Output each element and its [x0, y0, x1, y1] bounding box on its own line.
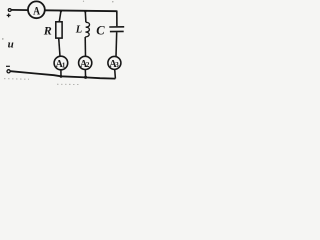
wire: inductor L to ammeter A2 — [84, 37, 86, 57]
wire: A1 to bottom rail — [60, 70, 62, 77]
wire: A3 down to bottom rail corner — [114, 69, 117, 78]
wire: + terminal to ammeter A — [11, 9, 28, 11]
plus sign — [7, 14, 11, 18]
resistor R — [56, 22, 62, 38]
wire: rail to inductor L — [84, 12, 87, 23]
minus sign — [6, 65, 10, 67]
ammeter A3 — [108, 56, 121, 69]
capacitor C bottom plate — [110, 30, 124, 32]
svg-text:L: L — [75, 24, 82, 35]
node: R branch junction — [60, 10, 62, 12]
ammeter A (U1) — [28, 1, 45, 18]
inductor L — [85, 22, 89, 37]
wire: A2 to bottom rail — [84, 69, 86, 77]
node: L branch junction — [84, 10, 86, 12]
terminal dot (-) — [7, 70, 10, 73]
svg-text:R: R — [43, 24, 52, 38]
svg-text:C: C — [96, 24, 105, 38]
ammeter A2 — [79, 56, 92, 69]
svg-text:1: 1 — [62, 61, 66, 69]
capacitor C top plate — [109, 26, 124, 28]
wire: bottom rail — [11, 71, 116, 78]
wire: resistor R to ammeter A1 — [59, 38, 60, 57]
wire: capacitor C to ammeter A3 — [115, 32, 118, 56]
node: A1 junction on bottom rail — [60, 75, 63, 78]
wire: top rail corner down to capacitor C — [116, 11, 118, 27]
ammeter A1 — [54, 56, 68, 70]
node: A2 junction on bottom rail — [84, 76, 87, 79]
wire: top rail — [45, 9, 117, 12]
wire: rail to resistor R — [59, 11, 61, 22]
svg-text:2: 2 — [86, 61, 90, 69]
svg-text:3: 3 — [115, 61, 119, 69]
svg-text:A: A — [33, 4, 40, 17]
svg-text:u: u — [8, 39, 14, 51]
terminal dot (+) — [8, 9, 11, 12]
